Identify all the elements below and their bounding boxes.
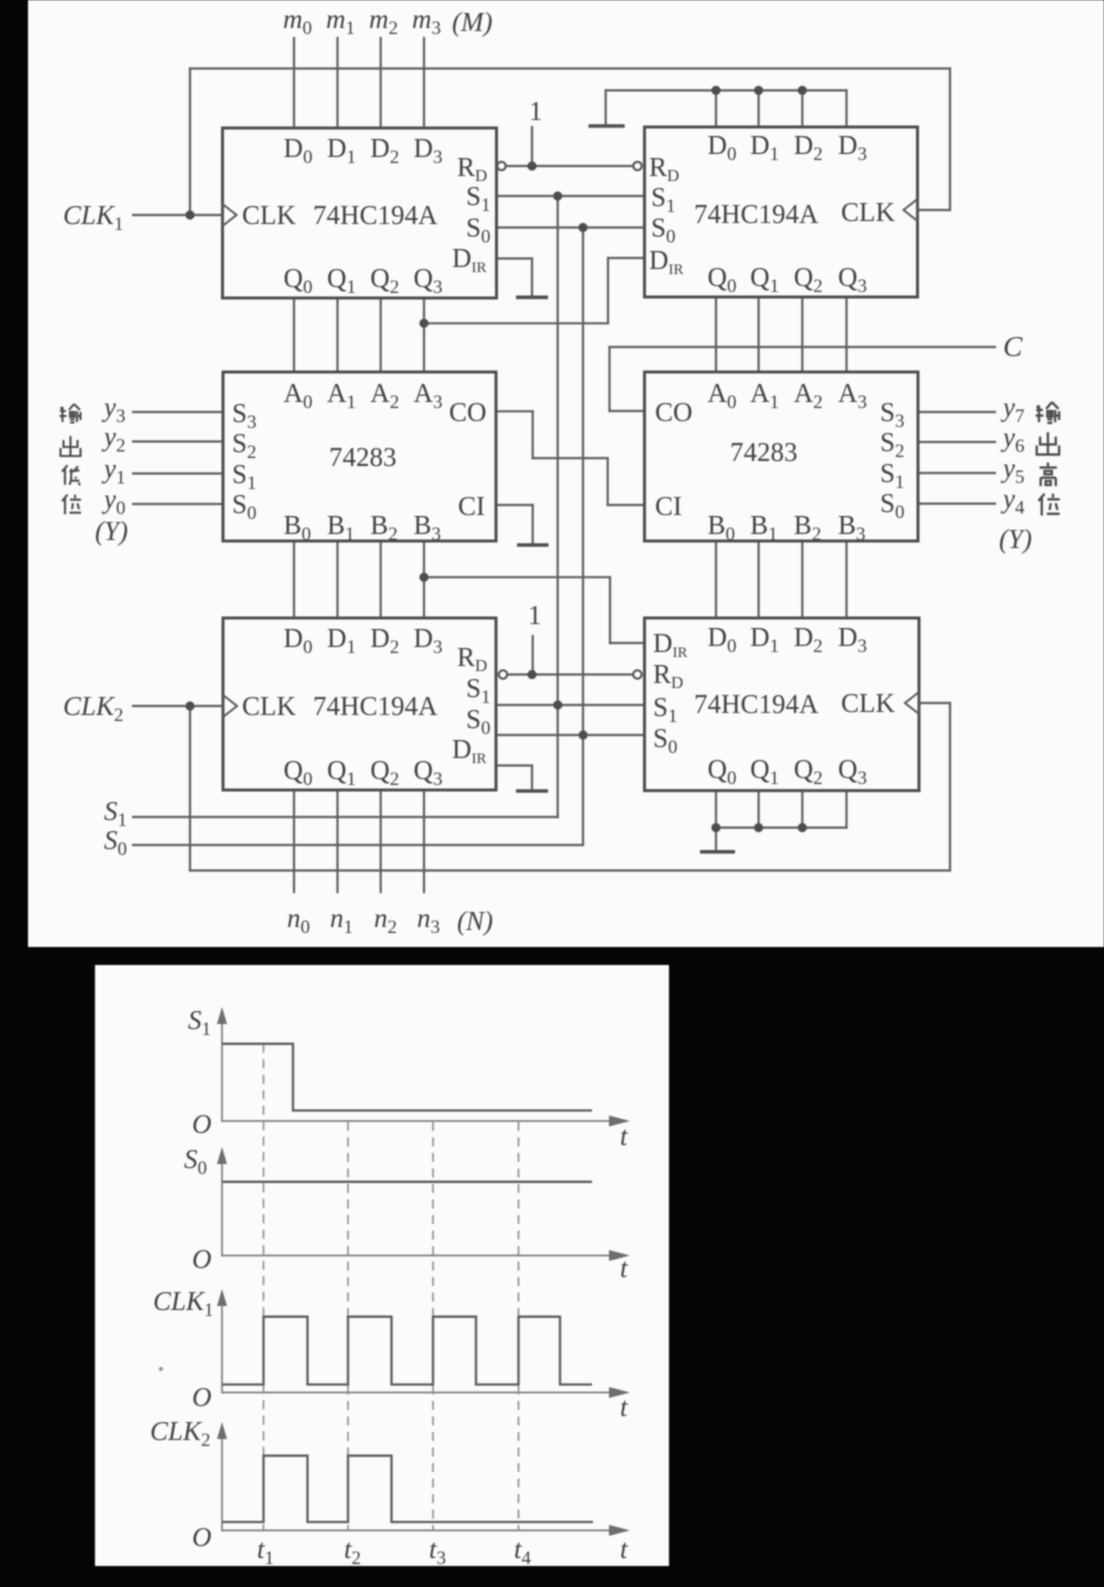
- svg-text:74283: 74283: [329, 442, 397, 472]
- svg-text:CO: CO: [449, 397, 487, 427]
- svg-text:CLK: CLK: [242, 691, 297, 721]
- svg-text:CLK: CLK: [841, 688, 896, 718]
- svg-text:CO: CO: [655, 397, 693, 427]
- svg-text:CLK: CLK: [242, 200, 297, 230]
- svg-text:(M): (M): [452, 7, 492, 37]
- svg-text:C: C: [1003, 331, 1023, 363]
- svg-text:1: 1: [528, 600, 542, 630]
- svg-text:74283: 74283: [730, 437, 798, 467]
- svg-text:(Y): (Y): [95, 516, 128, 546]
- svg-text:CI: CI: [458, 491, 485, 521]
- svg-text:CLK: CLK: [841, 197, 896, 227]
- svg-text:74HC194A: 74HC194A: [313, 691, 438, 721]
- svg-text:74HC194A: 74HC194A: [694, 199, 819, 229]
- svg-text:74HC194A: 74HC194A: [694, 689, 819, 719]
- svg-text:O: O: [192, 1522, 212, 1552]
- svg-text:74HC194A: 74HC194A: [313, 200, 438, 230]
- svg-text:(Y): (Y): [999, 524, 1032, 554]
- svg-text:O: O: [192, 1244, 212, 1274]
- svg-text:O: O: [192, 1109, 212, 1139]
- svg-text:(N): (N): [457, 906, 493, 936]
- svg-text:1: 1: [529, 96, 543, 126]
- svg-text:O: O: [192, 1382, 212, 1412]
- svg-text:CI: CI: [655, 491, 682, 521]
